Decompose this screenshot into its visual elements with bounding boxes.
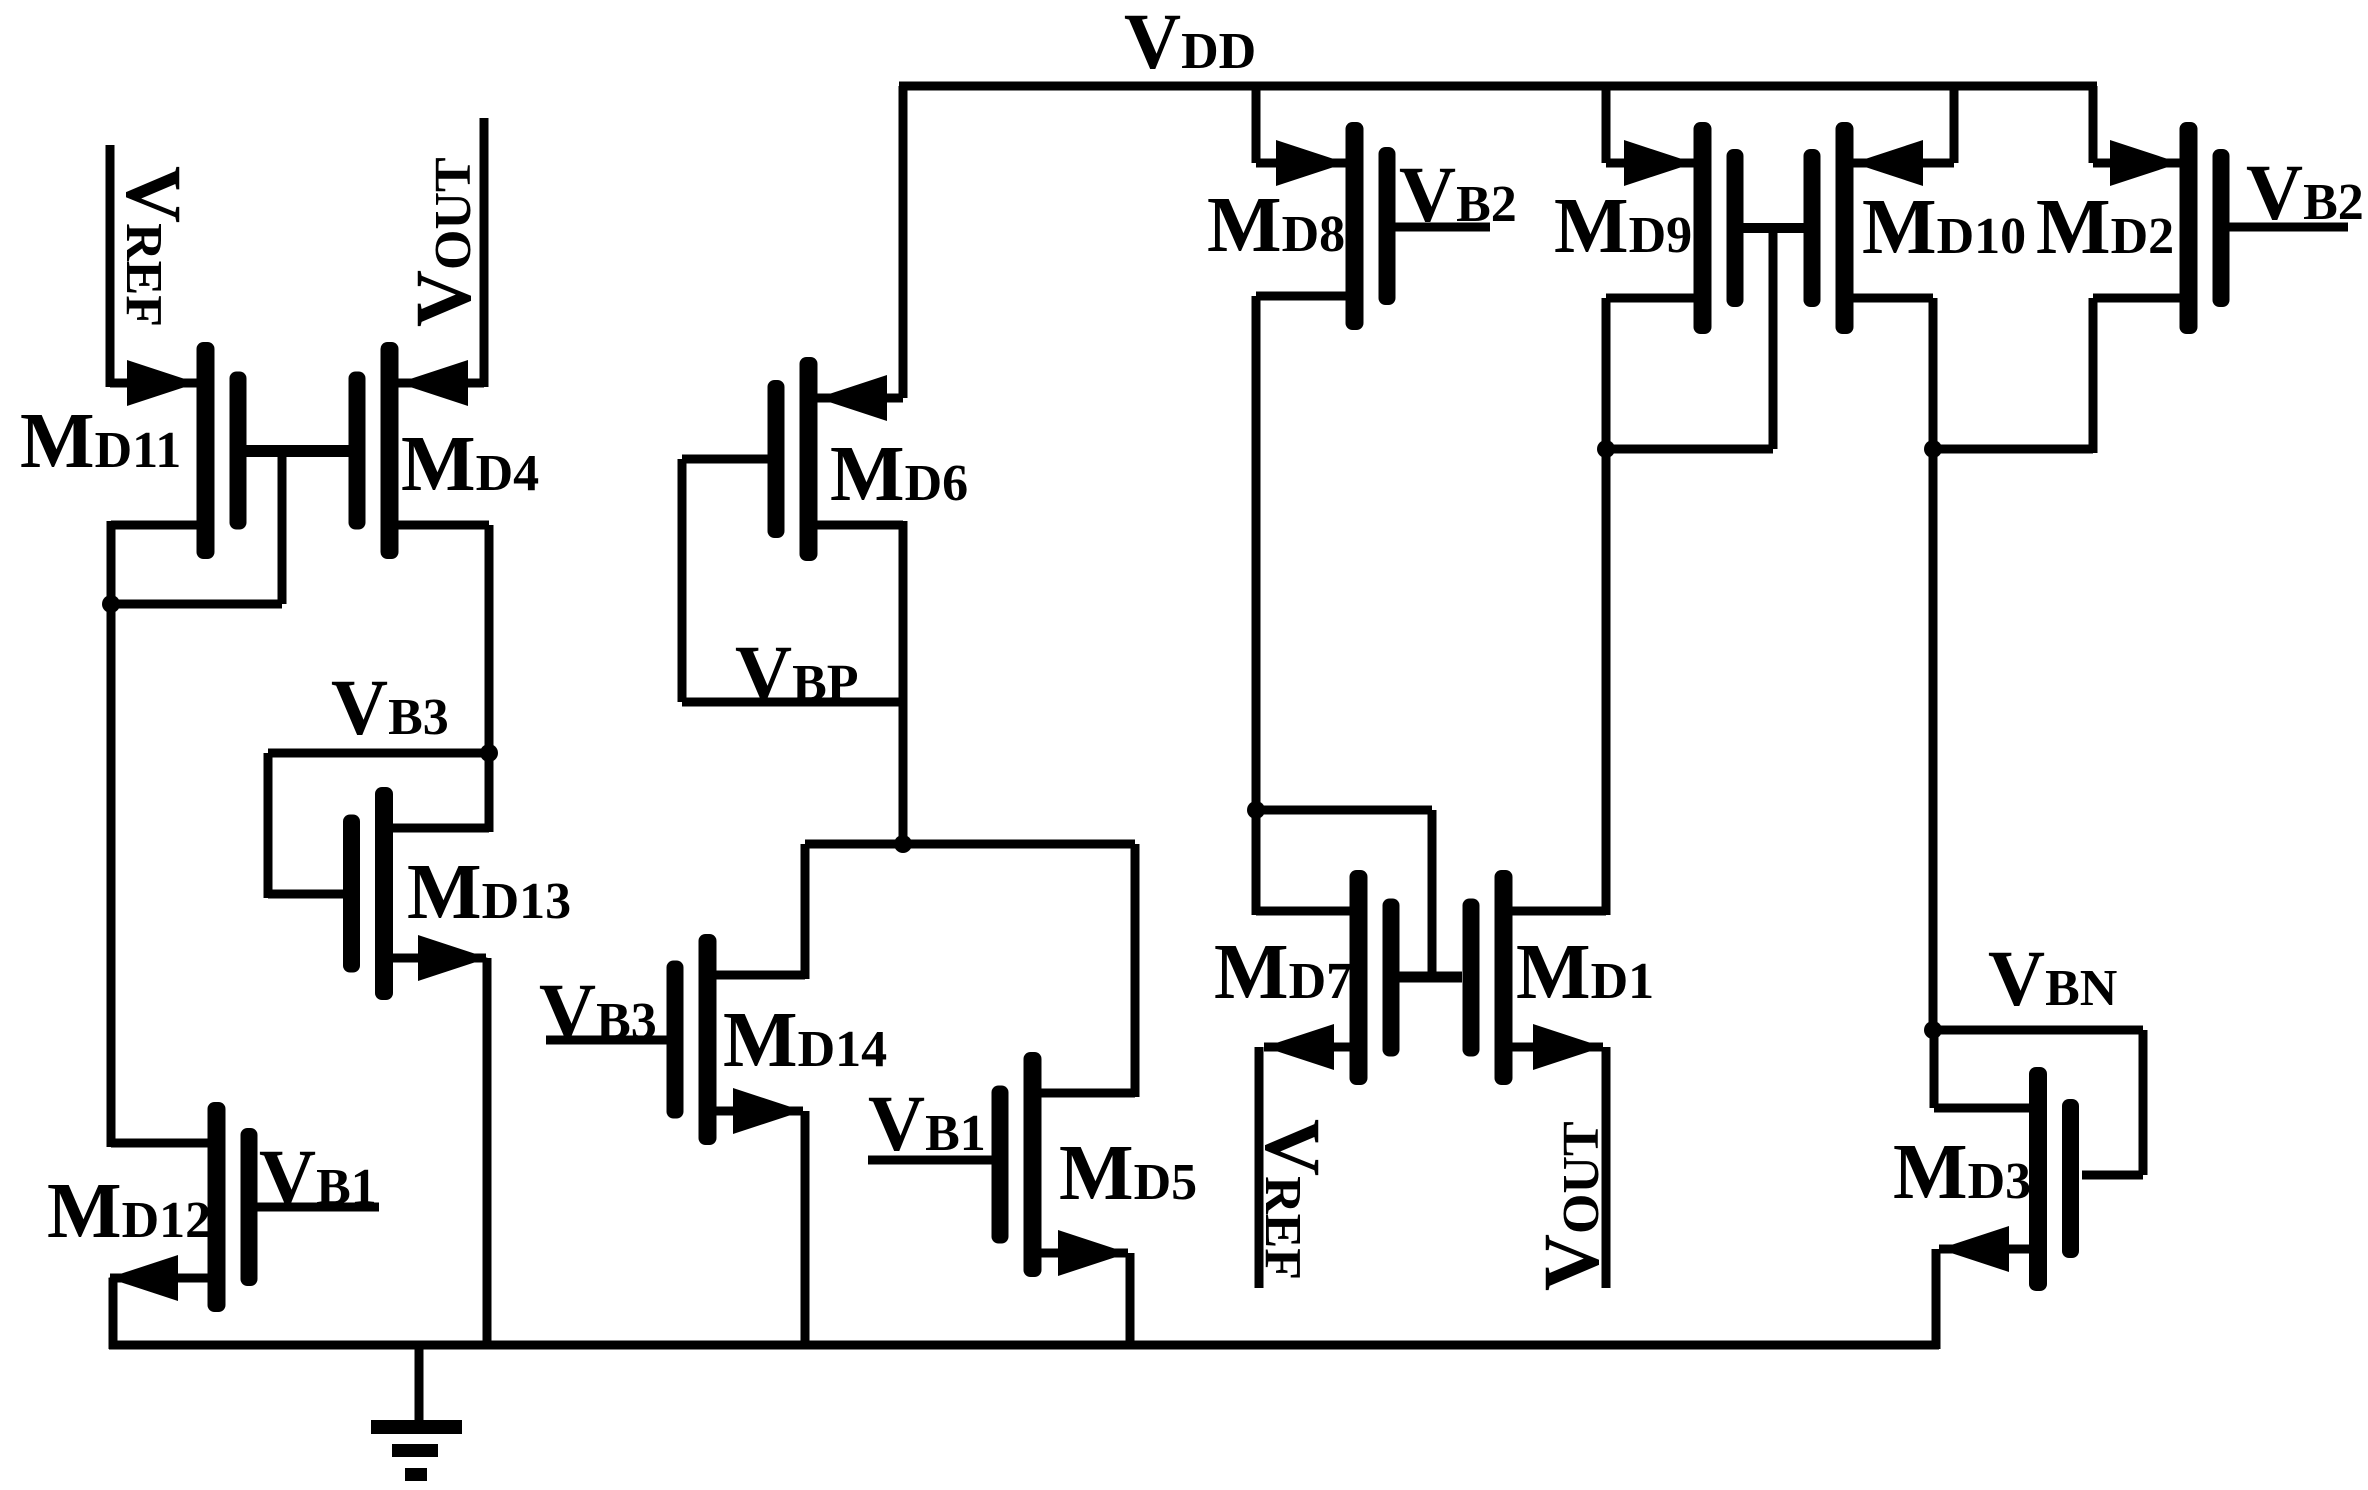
svg-text:MD8: MD8: [1207, 182, 1345, 269]
wire MD1 drain up: [1602, 449, 1611, 915]
wire MD6 drain down: [899, 521, 908, 848]
wire MD14 gate stub (VB3): [546, 1036, 668, 1045]
wire VBP loop left: [678, 459, 687, 702]
wire gate tap down: [278, 451, 287, 604]
wire MD3 drain lead: [1934, 1104, 2030, 1113]
svg-text:MD5: MD5: [1059, 1130, 1197, 1217]
svg-text:MD2: MD2: [2036, 184, 2174, 271]
wire VBN loop top: [1933, 1026, 2143, 1035]
svg-text:MD1: MD1: [1516, 929, 1654, 1016]
pin MD5 source arrow: [1058, 1230, 1128, 1276]
svg-text:VOUT: VOUT: [401, 157, 488, 327]
wire MD10-MD2 node horizontal: [1933, 445, 2093, 454]
wire VREF input lead: [106, 145, 115, 387]
wire node down to MD3: [1929, 449, 1938, 1034]
transistor MD7 (NMOS): [1350, 870, 1400, 1085]
svg-text:MD10: MD10: [1862, 184, 2026, 271]
wire MD7 drain lead: [1256, 907, 1350, 916]
pin MD1 source arrow: [1533, 1024, 1603, 1070]
wire VBP node horizontal: [805, 840, 1135, 849]
wire MD2 source lead: [2093, 294, 2180, 303]
pin MD3 source arrow: [1939, 1226, 2009, 1272]
wire MD1 drain lead: [1512, 907, 1606, 916]
svg-text:VB3: VB3: [331, 665, 449, 752]
svg-text:MD14: MD14: [723, 997, 887, 1084]
transistor MD6 (PMOS): [768, 357, 818, 561]
wire MD11-MD4 gate wire: [245, 445, 350, 457]
wire MD8 source lead: [1256, 292, 1346, 301]
wire VOUT lead down: [1602, 1047, 1611, 1288]
wire MD12 source down: [109, 1278, 118, 1349]
pin MD6 source arrow: [817, 375, 887, 421]
wire VDD drop to MD2: [2089, 86, 2098, 163]
transistor MD2 (PMOS): [2180, 122, 2230, 334]
pin MD2 drain arrow: [2110, 140, 2180, 186]
svg-text:MD12: MD12: [47, 1168, 211, 1255]
pin MD11 source arrow: [127, 360, 197, 406]
svg-text:MD7: MD7: [1214, 929, 1352, 1016]
wire MD14 drain lead: [716, 971, 805, 980]
svg-text:MD11: MD11: [20, 398, 181, 485]
transistor MD9 (PMOS): [1694, 122, 1744, 334]
ground: [371, 1345, 462, 1481]
wire VDD rail: [899, 82, 2097, 91]
transistor MD1 (NMOS): [1463, 870, 1513, 1085]
wire MD5 source lead: [1041, 1249, 1128, 1258]
node A junction: [102, 595, 120, 613]
wire MD3 source lead: [1939, 1245, 2030, 1254]
node MD8-MD7 junction: [1247, 801, 1265, 819]
node MD10-MD2 junction: [1924, 440, 1942, 458]
wire MD8 source down: [1252, 296, 1261, 915]
node VB3 junction: [480, 744, 498, 762]
transistor MD8 (PMOS): [1346, 122, 1396, 330]
svg-text:VBP: VBP: [735, 631, 859, 718]
transistor MD3 (NMOS): [2029, 1067, 2079, 1291]
wire MD8 drain lead: [1256, 159, 1346, 168]
wire MD11 drain lead: [111, 521, 197, 530]
wire VDD drop to MD6: [899, 86, 908, 398]
transistor MD4 (PMOS): [349, 342, 399, 559]
svg-text:VB2: VB2: [2246, 150, 2364, 237]
transistor MD14 (NMOS): [667, 934, 717, 1145]
pin MD9 drain arrow: [1624, 140, 1694, 186]
wire MD4 source lead: [398, 379, 484, 388]
wire MD9 drain lead: [1606, 159, 1694, 168]
svg-text:MD4: MD4: [401, 421, 539, 508]
wire MD12 drain lead: [111, 1139, 208, 1148]
pin MD10 drain arrow: [1853, 140, 1923, 186]
wire MD4 drain lead: [398, 521, 489, 530]
wire MD8 gate stub (VB2): [1394, 223, 1490, 232]
node VBP junction: [894, 835, 912, 853]
svg-text:VREF: VREF: [109, 166, 196, 327]
svg-text:VBN: VBN: [1988, 936, 2117, 1023]
wire gate tap horizontal: [1256, 806, 1432, 815]
wire VBN loop right: [2139, 1030, 2148, 1175]
wire MD5 gate stub (VB1): [868, 1156, 993, 1165]
wire MD7-MD1 gate wire: [1398, 972, 1462, 983]
wire MD13 gate lead: [268, 890, 345, 899]
transistor MD10 (PMOS): [1804, 122, 1854, 334]
wire MD9 source lead: [1606, 294, 1694, 303]
wire MD2 source down: [2089, 298, 2098, 453]
wire MD9 source down: [1602, 298, 1611, 449]
wire VDD drop to MD8: [1252, 86, 1261, 163]
svg-text:VB1: VB1: [259, 1135, 377, 1222]
svg-text:MD6: MD6: [830, 431, 968, 518]
transistor MD11 (PMOS): [197, 342, 247, 559]
wire MD10 drain lead: [1853, 159, 1954, 168]
svg-text:VDD: VDD: [1124, 0, 1256, 86]
node MD9 diode junction: [1597, 440, 1615, 458]
svg-text:VOUT: VOUT: [1529, 1121, 1616, 1291]
wire MD6 source lead: [817, 394, 903, 403]
wire VB3 loop left: [264, 753, 273, 898]
wire MD12 gate stub (VB1): [257, 1203, 379, 1212]
transistor MD12 (NMOS): [208, 1102, 258, 1312]
wire MD7 source lead: [1264, 1043, 1350, 1052]
wire MD14 source down: [801, 1111, 810, 1349]
wire gate pair tap down: [1769, 228, 1778, 449]
wire MD6 drain lead: [817, 521, 903, 530]
pin MD4 source arrow: [398, 360, 468, 406]
wire MD13 source down: [483, 958, 492, 1349]
wire MD3 source down: [1932, 1249, 1941, 1349]
wire MD10 source down: [1929, 298, 1938, 449]
pin MD13 source arrow: [418, 935, 488, 981]
svg-text:MD13: MD13: [407, 849, 571, 936]
wire VB3 loop top: [268, 749, 489, 758]
svg-text:MD9: MD9: [1554, 183, 1692, 270]
node VBN junction: [1924, 1021, 1942, 1039]
wire MD5 drain lead: [1041, 1089, 1135, 1098]
svg-text:MD3: MD3: [1893, 1129, 2031, 1216]
wire ground rail: [109, 1341, 1939, 1350]
wire MD3 gate lead: [2082, 1171, 2143, 1180]
wire MD4 drain down: [485, 525, 494, 832]
wire MD9 node horizontal: [1606, 445, 1773, 454]
wire MD13 drain lead: [392, 824, 489, 833]
wire VOUT input lead: [480, 118, 489, 387]
wire gate tap down: [1428, 810, 1437, 981]
wire MD14 source lead: [716, 1107, 803, 1116]
wire MD9-MD10 gate wire: [1734, 223, 1813, 233]
wire VREF lead down: [1255, 1047, 1264, 1288]
wire VDD drop to MD10: [1950, 86, 1959, 163]
wire MD2 gate stub (VB2): [2229, 223, 2348, 232]
svg-text:VB2: VB2: [1399, 152, 1517, 239]
svg-text:VB1: VB1: [868, 1081, 986, 1168]
wire MD11 source lead: [110, 379, 197, 388]
wire VBP loop bottom: [682, 698, 903, 707]
pin MD7 source arrow: [1264, 1024, 1334, 1070]
wire MD5 source down: [1126, 1253, 1135, 1349]
transistor MD13 (NMOS): [343, 787, 393, 1000]
pin MD14 source arrow: [733, 1088, 803, 1134]
wire VDD drop to MD9: [1602, 86, 1611, 163]
pin MD8 drain arrow: [1276, 140, 1346, 186]
wire MD10 source lead: [1853, 294, 1933, 303]
wire MD12 source lead: [110, 1274, 208, 1283]
wire MD3 drain down: [1930, 1030, 1939, 1108]
pin MD12 source arrow: [108, 1255, 178, 1301]
wire MD13 source lead: [392, 954, 486, 963]
wire MD5 drain up: [1131, 844, 1140, 1097]
wire MD6 gate lead: [682, 455, 769, 464]
svg-text:VB3: VB3: [539, 969, 657, 1056]
wire MD11 drain down: [107, 521, 116, 608]
wire node A to MD12 drain: [107, 604, 116, 1147]
wire MD2 drain lead: [2093, 159, 2180, 168]
svg-text:VREF: VREF: [1248, 1119, 1335, 1280]
wire MD1 source lead: [1512, 1043, 1603, 1052]
wire node A horizontal: [107, 600, 282, 609]
transistor MD5 (NMOS): [992, 1052, 1042, 1277]
wire MD14 drain up: [801, 844, 810, 979]
